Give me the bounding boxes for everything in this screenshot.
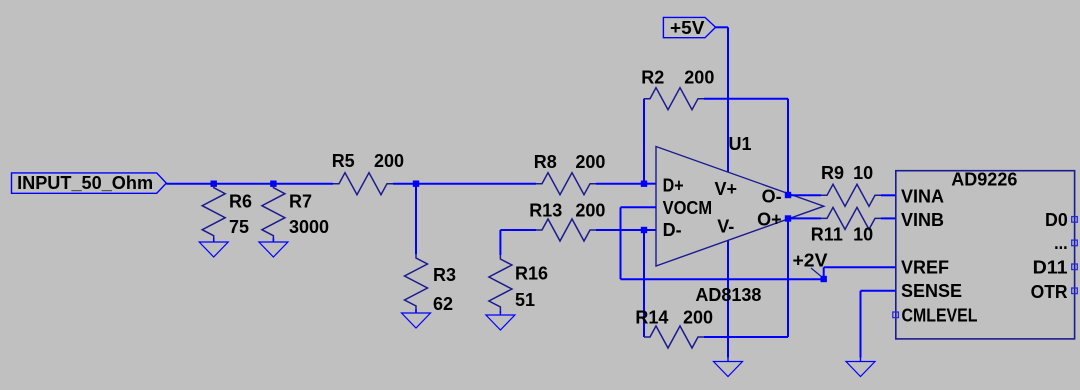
svg-text:R11: R11 — [811, 225, 843, 245]
wire +2V node to VREF — [824, 266, 896, 268]
wire node D- to opamp D- pin — [644, 229, 656, 231]
wire V+ supply — [727, 27, 729, 172]
wire +5V flag to V+ column — [716, 26, 728, 28]
svg-text:U1: U1 — [729, 134, 752, 154]
wire R13 to node D- — [596, 229, 644, 231]
flag +5V — [663, 17, 715, 37]
junction node D+ — [641, 181, 647, 187]
resistor R3 — [405, 254, 428, 312]
svg-text:3000: 3000 — [289, 217, 329, 237]
svg-text:75: 75 — [229, 217, 249, 237]
wire +2V node up — [823, 267, 825, 279]
svg-text:R16: R16 — [515, 264, 548, 284]
svg-text:OTR: OTR — [1031, 282, 1068, 302]
svg-text:O+: O+ — [757, 209, 782, 229]
wire R13 corner down to R16 — [499, 230, 501, 255]
svg-text:D+: D+ — [663, 175, 684, 195]
wire SENSE down — [860, 291, 862, 358]
svg-text:CMLEVEL: CMLEVEL — [902, 305, 978, 325]
svg-text:R2: R2 — [641, 68, 664, 88]
wire O+ column down — [787, 219, 789, 338]
wire O- column down — [787, 99, 789, 195]
svg-text:R6: R6 — [229, 191, 252, 211]
wire R5 to R8 — [393, 183, 536, 185]
svg-text:R9: R9 — [821, 163, 844, 183]
pin marker dots — [1072, 240, 1078, 246]
junction node R3 tap — [413, 181, 419, 187]
resistor R9 — [821, 184, 881, 206]
wire R14 to O+ column — [704, 336, 788, 338]
wire VOCM stub — [621, 206, 657, 208]
wire V- to ground — [727, 240, 729, 357]
wire O- to R9 — [788, 194, 821, 196]
pin marker D0 — [1072, 217, 1078, 223]
junction node D- — [641, 227, 647, 233]
resistor R11 — [821, 207, 881, 229]
svg-text:D0: D0 — [1045, 210, 1068, 230]
junction node R7 — [270, 181, 276, 187]
pin marker D11 — [1072, 264, 1078, 270]
svg-text:10: 10 — [853, 163, 873, 183]
junction node +2V — [821, 276, 827, 282]
svg-text:AD9226: AD9226 — [951, 170, 1017, 190]
ground R3 — [415, 309, 417, 313]
svg-text:R5: R5 — [332, 151, 355, 171]
svg-text:V+: V+ — [715, 179, 738, 199]
svg-text:200: 200 — [575, 201, 605, 221]
wire node D+ to opamp D+ pin — [644, 183, 656, 185]
ground R16 — [499, 311, 501, 315]
wire SENSE stub — [861, 290, 896, 292]
wire R13 left corner — [500, 229, 536, 231]
wire node D+ up to R2 — [643, 99, 645, 184]
wire R11 to VINB — [881, 217, 896, 219]
svg-text:V-: V- — [717, 217, 734, 237]
resistor R14 — [644, 326, 704, 348]
wire R8 to node D+ — [596, 183, 644, 185]
port INPUT_50_Ohm — [12, 173, 167, 193]
resistor R6 — [202, 184, 225, 242]
ADC U2 AD9226 box — [896, 171, 1075, 339]
resistor R2 — [644, 88, 704, 110]
svg-text:200: 200 — [684, 68, 714, 88]
wire input to R6 node — [166, 183, 213, 185]
wire R7 node to R5 — [273, 183, 333, 185]
svg-text:D-: D- — [663, 220, 682, 240]
resistor R13 — [536, 219, 596, 241]
wire R9 to VINA — [881, 194, 896, 196]
svg-text:R13: R13 — [529, 201, 562, 221]
resistor R8 — [536, 173, 596, 195]
wire VOCM down — [620, 207, 622, 279]
svg-text:200: 200 — [374, 151, 404, 171]
svg-text:62: 62 — [433, 294, 453, 314]
junction node input/R6 — [211, 181, 217, 187]
junction pin O+ — [785, 215, 791, 221]
svg-text:R3: R3 — [433, 265, 456, 285]
ground SENSE — [860, 358, 862, 362]
svg-text:200: 200 — [575, 152, 605, 172]
ground R7 — [272, 238, 274, 242]
resistor R7 — [262, 184, 285, 242]
svg-text:R8: R8 — [534, 152, 557, 172]
ground R6 — [213, 238, 215, 242]
wire R6 node to R7 node — [214, 183, 274, 185]
wire R3 tap down — [415, 184, 417, 254]
svg-text:O-: O- — [762, 186, 782, 206]
svg-text:+5V: +5V — [670, 17, 705, 38]
resistor R16 — [489, 255, 512, 313]
wire O+ to R11 — [788, 217, 821, 219]
svg-text:200: 200 — [683, 308, 713, 328]
svg-text:D11: D11 — [1033, 258, 1068, 278]
pin marker OTR — [1072, 288, 1078, 294]
svg-text:51: 51 — [515, 290, 535, 310]
svg-text:AD8138: AD8138 — [695, 285, 761, 305]
svg-text:VINB: VINB — [901, 210, 944, 230]
wire VOCM to +2V node — [621, 278, 824, 280]
junction pin O- — [785, 192, 791, 198]
ground op-amp V- — [727, 358, 729, 362]
wire node D- down to R14 — [643, 230, 645, 337]
svg-text:INPUT_50_Ohm: INPUT_50_Ohm — [17, 172, 153, 193]
svg-text:VINA: VINA — [901, 187, 944, 207]
resistor R5 — [333, 173, 393, 195]
svg-text:VREF: VREF — [901, 257, 949, 277]
svg-text:SENSE: SENSE — [901, 281, 962, 301]
svg-text:10: 10 — [853, 225, 873, 245]
wire R2 to O- column — [704, 98, 788, 100]
op-amp U1 AD8138 — [656, 147, 824, 267]
svg-text:...: ... — [1054, 233, 1068, 253]
svg-text:VOCM: VOCM — [663, 198, 713, 218]
pin marker CMLEVEL — [893, 312, 899, 318]
svg-text:R14: R14 — [635, 308, 668, 328]
svg-text:R7: R7 — [289, 191, 312, 211]
